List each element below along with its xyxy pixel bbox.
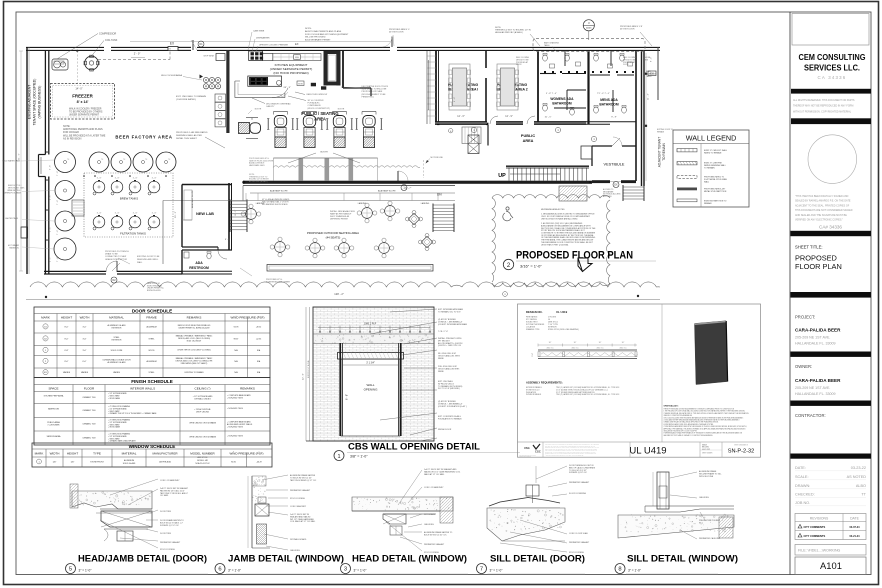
svg-text:/ CUSTOMER: / CUSTOMER (48, 425, 60, 427)
svg-text:7' - 4": 7' - 4" (57, 230, 59, 235)
cbs lintel (338, 353, 404, 360)
svg-text:DOOR: DOOR (623, 64, 629, 66)
vestibule door arc (612, 138, 620, 146)
outdoor table (379, 243, 390, 254)
d8 sill profile (645, 506, 734, 512)
svg-text:8'-0": 8'-0" (65, 338, 69, 340)
svg-text:3" = 1'-0": 3" = 1'-0" (228, 569, 241, 573)
svg-text:CAULKING: CAULKING (699, 496, 709, 499)
svg-text:16": 16" (574, 342, 577, 344)
kitchen range block with burners (249, 51, 263, 61)
svg-text:DOOR TRIM: DOOR TRIM (160, 533, 171, 535)
svg-text:BATHROOM: BATHROOM (552, 102, 571, 106)
svg-text:2' - 0": 2' - 0" (134, 52, 141, 56)
svg-text:SILL: SILL (699, 522, 703, 524)
svg-text:BOOTH: BOOTH (320, 152, 328, 154)
svg-text:MARK: MARK (35, 452, 44, 456)
svg-text:SHEET TITLE:: SHEET TITLE: (795, 245, 823, 250)
svg-text:UL U419: UL U419 (629, 445, 666, 456)
svg-text:16": 16" (549, 342, 552, 344)
svg-text:CONC. MASONRY: CONC. MASONRY (290, 505, 307, 508)
cbs left dim lines (305, 307, 307, 441)
svg-text:PERIMETER SEALANT: PERIMETER SEALANT (424, 543, 445, 546)
adjacent tenant strip inner line (28, 47, 30, 274)
svg-text:FREEZER: FREEZER (72, 94, 93, 99)
svg-text:AREA: AREA (523, 139, 534, 143)
svg-text:CEM CONSULTING: CEM CONSULTING (799, 52, 866, 62)
svg-text:AS PER FBC (A WALL): AS PER FBC (A WALL) (249, 180, 268, 183)
legend swatch 2 fire rated (677, 162, 697, 165)
mezzanine stair X braced lower (468, 135, 479, 154)
outdoor terrace boundary left (162, 201, 164, 265)
svg-text:2' - 8": 2' - 8" (50, 195, 52, 200)
svg-text:DOOR SCHEDULE: DOOR SCHEDULE (132, 308, 172, 313)
svg-text:SCALE:: SCALE: (795, 475, 809, 479)
svg-text:LANDING: LANDING (358, 202, 367, 205)
outdoor stair left DN (230, 201, 247, 230)
counter boxes along factory side of wall (215, 94, 226, 102)
svg-text:TT: TT (861, 493, 866, 497)
svg-text:2' - 0": 2' - 0" (50, 257, 52, 262)
bathroom interior partitions womens (540, 73, 556, 75)
door schedule and circles markers plan (198, 41, 204, 47)
svg-text:OPENING: OPENING (364, 388, 379, 392)
svg-text:REMAIN: REMAIN (704, 202, 712, 205)
svg-text:3" = 1'-0": 3" = 1'-0" (79, 569, 92, 573)
svg-text:DRAIN TO BE: DRAIN TO BE (105, 253, 118, 256)
svg-text:WOMENS ADA: WOMENS ADA (550, 97, 574, 101)
svg-text:3" = 1'-0": 3" = 1'-0" (628, 569, 641, 573)
lower exterior stair below vestibule (623, 187, 644, 199)
svg-text:3'-0": 3'-0" (83, 350, 87, 352)
svg-text:TWO (2) LAYERS 5/8" (15.9 MM): TWO (2) LAYERS 5/8" (15.9 MM) SHEETROCK®… (556, 393, 620, 396)
svg-text:TO REMAIN: TO REMAIN (704, 166, 715, 169)
svg-text:+ NON-SKID TILES: + NON-SKID TILES (227, 398, 244, 400)
svg-text:03-21-24: 03-21-24 (849, 535, 860, 538)
d6 dark drywall block (257, 524, 267, 544)
svg-text:FLOOR: FLOOR (84, 386, 95, 390)
title block left border (789, 12, 791, 575)
d3 frame lines (352, 510, 440, 512)
svg-text:ADA RAMP SLOPE: ADA RAMP SLOPE (270, 190, 288, 193)
bathroom east wall (635, 51, 637, 181)
demising wall (1-hr) left of beer factory (44, 50, 46, 155)
svg-text:KEG COOLER AREA: KEG COOLER AREA (161, 74, 182, 77)
svg-text:SPACE: SPACE (49, 386, 59, 390)
front storefront wall dark band (243, 181, 592, 184)
svg-text:ADJACENT TO THE SEAL. PR: ADJACENT TO THE SEAL. PRINTED COPIES OF (795, 204, 850, 207)
bathroom fixtures (543, 55, 548, 61)
svg-text:8' - 2": 8' - 2" (225, 239, 230, 241)
filtration tanks row 2 (93, 216, 105, 228)
dim dots along walls (46, 151, 48, 153)
svg-text:3" = 1'-0": 3" = 1'-0" (490, 569, 503, 573)
party rooms divider wall (485, 51, 487, 68)
svg-text:MANUFACTURER: MANUFACTURER (152, 452, 178, 456)
svg-text:3'-0": 3'-0" (83, 326, 87, 328)
title block black bar 0 (791, 89, 871, 94)
svg-text:31' - 0": 31' - 0" (19, 153, 21, 160)
svg-text:CONC. OR MASONRY: CONC. OR MASONRY (424, 486, 444, 489)
svg-text:EXIST 16'-0" B.O.B.: EXIST 16'-0" B.O.B. (308, 360, 310, 378)
d7 threshold profile (489, 498, 560, 507)
svg-text:AS NOTED: AS NOTED (847, 475, 867, 479)
svg-text:STEEL STUD (NON-LOAD BEARING): STEEL STUD (NON-LOAD BEARING) (548, 328, 579, 331)
svg-text:LESS THAN 7 FEET (2134 MM).: LESS THAN 7 FEET (2134 MM). (541, 243, 569, 246)
svg-text:BOOTH: BOOTH (255, 109, 262, 111)
ramp area left of party room (426, 51, 428, 124)
svg-text:FIRE RATED (SEE CUT SHEET): FIRE RATED (SEE CUT SHEET) (181, 362, 208, 365)
svg-text:REMARKS: REMARKS (187, 316, 202, 320)
cbs speckled band upper (314, 334, 434, 344)
svg-text:3' 1 3/4": 3' 1 3/4" (366, 362, 375, 365)
handicap symbol outdoor (503, 207, 513, 221)
ada restroom walls (182, 249, 232, 251)
UL wall section infill zigzag (541, 353, 638, 356)
svg-text:EXTERIOR: EXTERIOR (112, 328, 122, 330)
svg-text:BUCK W/ 9/16"x2 1/2" O/C: BUCK W/ 9/16"x2 1/2" O/C (424, 534, 447, 536)
svg-text:RATED TO REMAIN: RATED TO REMAIN (704, 151, 722, 154)
svg-text:WALL: WALL (137, 261, 143, 264)
svg-text:MATERIAL: MATERIAL (109, 316, 124, 320)
svg-text:12' - 0": 12' - 0" (303, 373, 305, 380)
svg-text:SERVICES LLC.: SERVICES LLC. (804, 63, 860, 73)
svg-text:PASS THRU WINDOW: PASS THRU WINDOW (307, 93, 328, 96)
svg-text:REINF.: REINF. (438, 358, 445, 360)
svg-text:FILTRATION TANKS: FILTRATION TANKS (120, 232, 146, 236)
svg-text:ADA: ADA (195, 261, 203, 265)
svg-text:CITY COMMENTS: CITY COMMENTS (804, 534, 826, 538)
svg-text:EXISTING TO REMAIN: EXISTING TO REMAIN (185, 371, 205, 374)
svg-text:DRAWN:: DRAWN: (795, 484, 810, 488)
svg-text:MOTION LINE: MOTION LINE (431, 157, 444, 159)
svg-text:CA 34336: CA 34336 (818, 75, 847, 80)
svg-text:5: 5 (69, 567, 72, 573)
lab counter lines (182, 219, 192, 221)
plan number circle (503, 259, 513, 269)
svg-text:KITCHEN PREP AREA: KITCHEN PREP AREA (44, 395, 64, 398)
logo box (792, 14, 869, 46)
svg-text:PERIMETER SEALANT: PERIMETER SEALANT (290, 489, 311, 492)
svg-text:VARIES: VARIES (113, 371, 121, 374)
svg-text:SERVICE AREA: SERVICE AREA (47, 435, 62, 438)
svg-text:CEILING ("): CEILING (") (195, 386, 211, 390)
svg-text:VARIES: VARIES (63, 371, 71, 374)
svg-text:120": 120" (71, 462, 75, 464)
ramp up arrow (428, 60, 430, 110)
svg-text:TAPCON SCREWS @ 12" O/C: TAPCON SCREWS @ 12" O/C (290, 479, 317, 482)
svg-text:FRAMING TYPE: FRAMING TYPE (526, 328, 540, 331)
svg-text:DECORATIVE FOOD TRUCK: DECORATIVE FOOD TRUCK (362, 85, 389, 88)
cbs leader lines to notes (390, 309, 437, 312)
svg-text:OPEN CEILING / WOOD BEAMS: OPEN CEILING / WOOD BEAMS (189, 435, 217, 438)
outdoor table (246, 209, 257, 220)
legend swatch 1 cmu (677, 149, 697, 152)
svg-text:BOOTH: BOOTH (338, 109, 345, 111)
svg-text:SILL DETAIL (DOOR): SILL DETAIL (DOOR) (490, 554, 585, 564)
svg-text:(NO HOOD PROPOSED): (NO HOOD PROPOSED) (273, 71, 308, 75)
new exit door leaf top wall (192, 40, 194, 50)
svg-text:DOOR: DOOR (516, 64, 522, 66)
svg-text:CHECKED:: CHECKED: (795, 493, 815, 497)
window schedule data row (37, 459, 42, 464)
svg-text:16": 16" (622, 342, 625, 344)
svg-text:CERAMIC TILE: CERAMIC TILE (82, 396, 96, 399)
existing window EX in top wall (168, 47, 178, 51)
d5 door head frame (100, 508, 152, 510)
svg-text:FINISH FLOOR: FINISH FLOOR (438, 429, 452, 431)
svg-text:CITY COMMENTS: CITY COMMENTS (804, 525, 826, 529)
d8 sill and floor band (645, 505, 734, 507)
svg-text:3/8" = 1'-0": 3/8" = 1'-0" (350, 455, 368, 459)
mezzanine dashed outline (533, 39, 645, 52)
svg-text:8' x 14': 8' x 14' (77, 100, 89, 104)
svg-text:(VAPING BUSINESS): (VAPING BUSINESS) (38, 86, 42, 119)
closet by vestibule (581, 146, 592, 159)
booth unit (333, 111, 347, 113)
svg-text:1083.2 PLF: 1083.2 PLF (364, 323, 377, 326)
svg-text:UNDER PERMIT No. BDRW-23-00209: UNDER PERMIT No. BDRW-23-00209 (178, 327, 209, 329)
food truck shell enclosure (324, 51, 328, 85)
d5 left hatch edge (70, 484, 78, 508)
svg-text:8: 8 (618, 567, 621, 573)
svg-text:MENS ADA: MENS ADA (600, 98, 618, 102)
bathroom west wall (537, 51, 539, 124)
wall legend box (673, 130, 749, 207)
svg-text:1' - 0": 1' - 0" (97, 178, 102, 180)
svg-text:INTERIOR WALLS: INTERIOR WALLS (130, 386, 155, 390)
svg-text:FOUNDATION TO REMAIN: FOUNDATION TO REMAIN (438, 417, 462, 420)
outdoor table (310, 243, 321, 254)
svg-text:WIDTH: WIDTH (50, 452, 60, 456)
outdoor square tables rotated (408, 213, 419, 224)
coil tank circle (85, 56, 99, 70)
svg-text:MID BARRIER SHOW SPACE: MID BARRIER SHOW SPACE (262, 203, 288, 206)
dots on party bottom wall (437, 123, 439, 125)
svg-text:WITH SILICONE: WITH SILICONE (699, 476, 714, 478)
gray wall stub below party wall (487, 125, 489, 146)
svg-text:METAL STUD PARTITION: METAL STUD PARTITION (704, 190, 727, 193)
svg-text:FOR COOLER AND KITCHEN EQUIPME: FOR COOLER AND KITCHEN EQUIPMENT (305, 33, 349, 36)
svg-text:DEMISING WALL AS PER: DEMISING WALL AS PER (176, 134, 202, 137)
svg-text:SILL DETAIL (WINDOW): SILL DETAIL (WINDOW) (627, 554, 738, 564)
UL dim ticks above section (538, 344, 637, 346)
svg-text:CARA-PALIDA BEER: CARA-PALIDA BEER (795, 378, 841, 383)
svg-text:3/16" = 1'-0": 3/16" = 1'-0" (520, 264, 542, 269)
svg-text:CURTAIN WALL DOUBLE DOOR: CURTAIN WALL DOUBLE DOOR (102, 359, 131, 362)
svg-text:EXISTING ADJACENT: EXISTING ADJACENT (28, 85, 32, 119)
svg-text:CONC. OR MASONRY: CONC. OR MASONRY (160, 479, 180, 482)
svg-text:VERIFIED ON ANY ELECTRONIC: VERIFIED ON ANY ELECTRONIC COPIES." (795, 219, 843, 222)
notch bump in left wall (21, 227, 28, 238)
ada restroom fixtures (207, 253, 211, 259)
kitchen right enclosure wall (342, 50, 344, 88)
UL wall section strip (538, 349, 637, 351)
svg-text:PROPOSED 1-HR FIRE RATED: PROPOSED 1-HR FIRE RATED (176, 131, 208, 134)
landing vertical divider lines (245, 193, 247, 201)
mezzanine stair upper box (462, 127, 481, 144)
party area 1 long table (449, 64, 470, 110)
svg-text:GRIM BALADO:: GRIM BALADO: (664, 405, 679, 408)
svg-text:STORE FRONT: STORE FRONT (90, 462, 104, 464)
cbs jamb bars (339, 343, 341, 436)
storefront counter outline (274, 158, 378, 181)
mezzanine marker circle A103 (583, 20, 594, 31)
svg-text:UP: UP (498, 173, 506, 179)
svg-text:DOOR TRIM: DOOR TRIM (160, 511, 171, 513)
svg-text:STUCCO FINISH: STUCCO FINISH (160, 549, 175, 551)
svg-text:JAMB DETAIL (WINDOW): JAMB DETAIL (WINDOW) (228, 554, 344, 564)
top wall right portion (397, 46, 660, 48)
d6 wall vertical (251, 476, 253, 548)
frig box (294, 55, 301, 59)
d5 concrete speckle band (72, 491, 152, 509)
door arc bottom-left (106, 261, 117, 272)
front door arc at storefront (397, 171, 399, 181)
svg-text:EX: EX (295, 42, 299, 46)
svg-text:8'-0": 8'-0" (65, 361, 69, 363)
svg-text:PERIMETER SEALANT: PERIMETER SEALANT (569, 541, 590, 544)
party rooms left wall (435, 51, 437, 124)
svg-text:FINISH SCHEDULE: FINISH SCHEDULE (131, 379, 173, 384)
svg-text:TANK/BOIL: TANK/BOIL (9, 247, 19, 250)
d5 leader lines (110, 479, 158, 495)
svg-text:2' - 4": 2' - 4" (50, 227, 52, 232)
svg-text:AS PER AOA: AS PER AOA (159, 461, 171, 464)
svg-text:MEZZANINE AREA NOTES:: MEZZANINE AREA NOTES: (541, 208, 565, 211)
svg-text:WALL: WALL (704, 180, 709, 183)
d6 window frame (255, 504, 269, 516)
UL divider vertical (661, 304, 663, 442)
svg-text:WOP WINE: WOP WINE (203, 56, 214, 58)
svg-text:6'-8": 6'-8" (65, 350, 69, 352)
storefront posts (299, 158, 304, 181)
svg-text:SCREWS @ 2'-0" O/C: SCREWS @ 2'-0" O/C (160, 525, 180, 527)
UL door panel dark image (695, 321, 728, 385)
svg-text:COMPRESSOR: COMPRESSOR (99, 33, 117, 36)
svg-text:SOLID GLASS: SOLID GLASS (123, 462, 136, 465)
cbs wall opening white (341, 359, 400, 436)
svg-text:3'-6": 3'-6" (83, 338, 87, 340)
svg-text:12' - 9": 12' - 9" (505, 115, 513, 118)
svg-text:A101: A101 (820, 560, 842, 571)
svg-text:8'-0": 8'-0" (65, 326, 69, 328)
dim line top of sheet (130, 41, 390, 43)
svg-text:MODEL: HR: MODEL: HR (197, 460, 208, 462)
adjacent tenant wall right side (641, 51, 643, 186)
svg-text:ALLOWED: ALLOWED (603, 195, 612, 198)
outdoor table (362, 208, 373, 219)
outdoor table (339, 243, 350, 254)
svg-text:12' - 6": 12' - 6" (457, 115, 465, 118)
svg-text:TYPE: TYPE (93, 452, 101, 456)
svg-text:COMPLIANCE: COMPLIANCE (308, 104, 322, 107)
svg-text:-49.52: -49.52 (256, 326, 261, 328)
svg-text:WINDOW SCHEDULE: WINDOW SCHEDULE (129, 444, 176, 449)
svg-text:REMARKS: REMARKS (240, 386, 255, 390)
svg-text:DESIGN NO.: DESIGN NO. (526, 310, 543, 314)
bathroom interior partitions mens (590, 74, 610, 76)
stair arrow (510, 173, 560, 175)
svg-text:-46.29: -46.29 (256, 462, 261, 464)
title block black bar 5 (791, 401, 872, 406)
kitchen prep box (263, 54, 273, 61)
svg-text:ALBO: ALBO (856, 484, 866, 488)
svg-text:PERIMETER CAULKING: PERIMETER CAULKING (699, 537, 721, 540)
svg-text:LAUTER TANK: LAUTER TANK (5, 217, 19, 220)
svg-text:TABLE: TABLE (544, 44, 550, 47)
svg-text:WALL: WALL (366, 383, 374, 387)
kitchen lower counter L outline (235, 81, 285, 97)
svg-text:STEEL: STEEL (149, 372, 155, 374)
svg-text:CARA-PALIDA BEER: CARA-PALIDA BEER (795, 328, 841, 333)
demising wall jog alcove (39, 154, 46, 156)
svg-text:SEALED BY RAFAEL AMARGO P.: SEALED BY RAFAEL AMARGO P.E. ON THE DATE (795, 200, 851, 203)
svg-text:UL U419: UL U419 (556, 310, 568, 314)
svg-text:MATERIAL: MATERIAL (122, 452, 137, 456)
svg-text:EX: EX (614, 184, 618, 187)
svg-text:CERAMIC TILE: CERAMIC TILE (82, 436, 96, 439)
revision row 1 (798, 524, 802, 528)
svg-text:(ON EXIT. FOUNDATION (2=46" ): (ON EXIT. FOUNDATION (2=46" ) (438, 405, 467, 408)
svg-text:ALUMINUM / GLASS: ALUMINUM / GLASS (108, 324, 127, 327)
svg-text:NOTE:: NOTE: (305, 28, 312, 30)
svg-text:DETAIL THIS SHEET: DETAIL THIS SHEET (176, 137, 198, 140)
large fermentation tanks row (55, 152, 76, 173)
dashed routing line from coil tank (98, 59, 170, 61)
booth unit (274, 111, 288, 113)
kitchen pass arc (272, 88, 288, 97)
svg-text:90.81: 90.81 (231, 462, 236, 464)
file row (795, 545, 866, 556)
svg-text:FRAME: FRAME (146, 316, 157, 320)
wall between beer factory and kitchen/public area (226, 50, 229, 133)
planter at terrace bottom (267, 265, 433, 272)
d6 speckled block top (252, 476, 266, 486)
svg-text:7' - 4": 7' - 4" (57, 171, 59, 176)
svg-text:CAULKING: CAULKING (424, 523, 434, 526)
svg-text:CERAMIC TILE: CERAMIC TILE (82, 409, 96, 412)
svg-text:VARIES: VARIES (81, 371, 89, 374)
svg-text:USG: USG (524, 446, 530, 450)
svg-text:MODEL NUMBER: MODEL NUMBER (190, 452, 215, 456)
svg-text:LANDING: LANDING (421, 202, 430, 205)
svg-text:DATE: DATE (850, 517, 860, 521)
svg-text:NAILS AT 12" O/C MAX.: NAILS AT 12" O/C MAX. (424, 473, 445, 476)
compressor unit (52, 59, 68, 70)
svg-text:42' - 7": 42' - 7" (405, 187, 412, 189)
svg-text:COIL TANK: COIL TANK (105, 39, 118, 42)
seal circle (808, 135, 857, 184)
svg-text:CASE WINE: CASE WINE (253, 30, 265, 33)
svg-text:HALLANDALE FL. 33009: HALLANDALE FL. 33009 (795, 342, 836, 346)
motion line dashed (423, 160, 425, 178)
svg-text:ALL RIGHTS RESERVED. THIS: ALL RIGHTS RESERVED. THIS DOCUMENT OR PA… (793, 99, 855, 102)
svg-text:3" = 1'-0": 3" = 1'-0" (354, 569, 367, 573)
svg-text:WOOD: WOOD (148, 350, 155, 352)
left column tanks (55, 181, 75, 201)
dimension line under plan (26, 299, 660, 301)
svg-text:ALUMINUM: ALUMINUM (124, 459, 135, 462)
title block black bar 2 (791, 231, 872, 236)
svg-text:CGC: CGC (535, 450, 541, 454)
svg-text:46" EXIT DOOR: 46" EXIT DOOR (620, 29, 635, 31)
svg-text:CANOPY: CANOPY (266, 105, 275, 108)
freezer dashed outline (51, 84, 115, 120)
svg-text:7' - 4": 7' - 4" (57, 200, 59, 205)
svg-text:SOLID CORE: SOLID CORE (111, 350, 123, 352)
outdoor stair right (433, 205, 454, 231)
